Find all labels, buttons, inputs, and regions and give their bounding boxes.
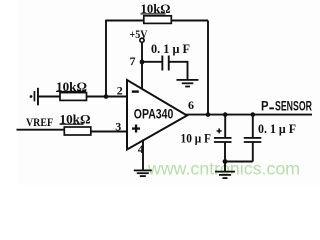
svg-text:P: P: [261, 99, 269, 114]
svg-text:0. 1 μ F: 0. 1 μ F: [258, 121, 296, 136]
junction node pin7: [140, 60, 145, 65]
wire feedback top left: [105, 20, 144, 22]
wire pin7 to C1: [142, 61, 162, 63]
wire C3 bottom: [252, 143, 254, 162]
wire R3 to op-amp pin 3: [90, 131, 129, 133]
svg-text:OPA340: OPA340: [134, 106, 174, 121]
capacitor C2 10uF plates: [214, 137, 232, 143]
label P_SENSOR: [261, 99, 312, 114]
page background tint: [18, 0, 320, 185]
wire output rail: [186, 114, 312, 116]
svg-text:SENSOR: SENSOR: [275, 99, 312, 114]
resistor R2 10k (feedback): [144, 16, 172, 24]
svg-text:2: 2: [117, 83, 123, 97]
capacitor C1 0.1uF bypass: [161, 56, 169, 71]
capacitor C2 10uF polarity +: [217, 128, 222, 133]
wire C2 bottom: [224, 143, 226, 172]
op-amp U1 OPA340: [127, 80, 187, 150]
wire pin 4 to ground: [142, 140, 144, 171]
svg-text:VREF: VREF: [26, 115, 53, 129]
wire ground link C2-C3: [225, 161, 253, 163]
svg-text:3: 3: [115, 119, 121, 133]
junction node pin2/feedback: [104, 94, 109, 99]
junction node ground link: [223, 159, 228, 164]
ground G2 (pin 4): [134, 170, 152, 178]
wire feedback top right: [171, 20, 208, 22]
svg-text:7: 7: [130, 54, 136, 68]
resistor R3 10k (VREF): [64, 127, 91, 135]
ground G1 (bypass): [177, 79, 199, 87]
label R1 10kΩ: [56, 79, 87, 94]
wire C1 to ground: [170, 62, 188, 80]
wire input to R1: [39, 96, 62, 98]
wire R1 to op-amp pin 2: [86, 96, 129, 98]
junction node C3: [251, 112, 256, 117]
input terminal J1: [30, 88, 39, 106]
+5V terminal: [140, 38, 144, 42]
op-amp minus sign: [132, 90, 139, 92]
svg-text:6: 6: [188, 98, 194, 112]
svg-text:+5V: +5V: [130, 27, 148, 41]
label R3 10kΩ: [60, 111, 91, 126]
wire feedback left vertical: [105, 21, 107, 97]
wire feedback right vertical: [207, 21, 209, 115]
junction node feedback/output: [206, 112, 211, 117]
op-amp plus sign: [132, 125, 140, 133]
ground G3 (output caps): [215, 171, 235, 179]
wire VREF to R3: [17, 129, 66, 131]
capacitor C3 0.1uF plates: [244, 137, 261, 143]
wire C2 top: [224, 115, 226, 138]
label R2 10kΩ: [141, 1, 171, 16]
svg-text:10 μ F: 10 μ F: [181, 130, 212, 145]
svg-text:0. 1 μ F: 0. 1 μ F: [151, 41, 190, 56]
resistor R1 10k (inverting input): [60, 93, 87, 101]
+5V supply wire: [141, 43, 143, 92]
wire C3 top: [252, 115, 254, 138]
junction node C2: [223, 112, 228, 117]
